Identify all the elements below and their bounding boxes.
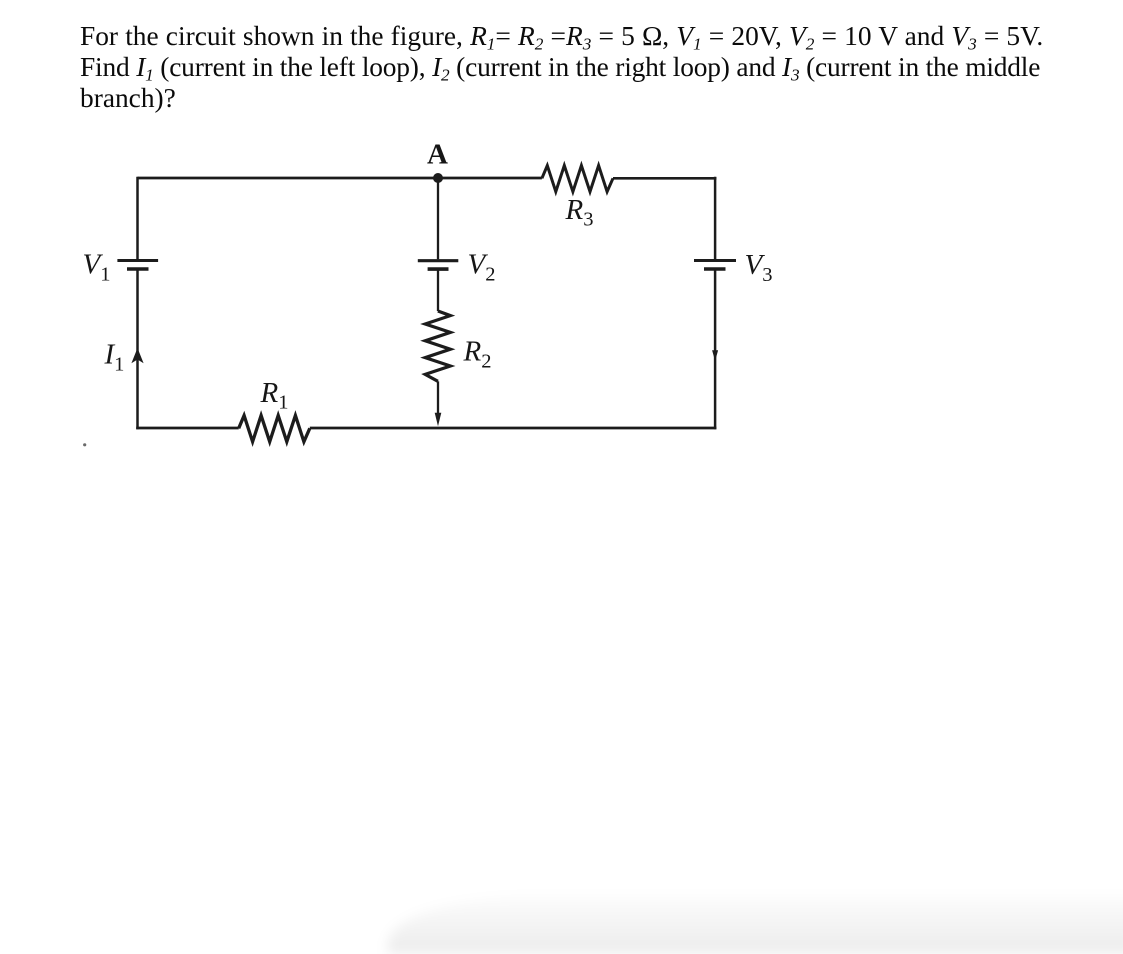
node A junction dot [433, 173, 443, 183]
current arrow at bottom of middle branch [435, 413, 442, 427]
svg-text:R1: R1 [260, 377, 289, 414]
wire: right vertical upper segment [714, 177, 717, 259]
stray dot artifact [83, 443, 86, 446]
svg-text:V3: V3 [745, 249, 773, 286]
wire: middle vertical lower segment (R2 to bottom) [437, 381, 439, 414]
svg-text:R3: R3 [565, 194, 594, 231]
battery V3 [694, 249, 772, 286]
svg-text:V2: V2 [468, 249, 496, 286]
battery V2 [418, 249, 496, 286]
wire: right vertical lower segment [714, 269, 717, 429]
current arrow on right wire [712, 350, 718, 361]
wire: bottom horizontal right segment (R1 to right corner) [310, 427, 717, 430]
svg-text:R2: R2 [463, 336, 492, 373]
svg-text:V1: V1 [83, 249, 111, 286]
resistor R3 [542, 166, 613, 231]
wire: bottom horizontal left segment (corner to R1) [136, 427, 239, 430]
wire: middle vertical segment (V2 to R2) [437, 269, 439, 311]
wire: middle vertical upper segment (A to V2) [437, 178, 439, 259]
svg-text:I1: I1 [104, 339, 125, 376]
wire: left vertical upper segment [136, 177, 139, 259]
wire: left vertical lower segment [136, 269, 139, 429]
current arrow I1 [104, 339, 144, 376]
page bottom shadow [388, 896, 1123, 954]
resistor R2 [425, 311, 491, 381]
wire: top horizontal left segment (corner to R3) [138, 177, 542, 180]
resistor R1 [239, 377, 310, 442]
wire: top horizontal right segment (R3 to right corner) [613, 177, 716, 180]
battery V1 [83, 249, 159, 286]
svg-text:A: A [427, 139, 448, 171]
